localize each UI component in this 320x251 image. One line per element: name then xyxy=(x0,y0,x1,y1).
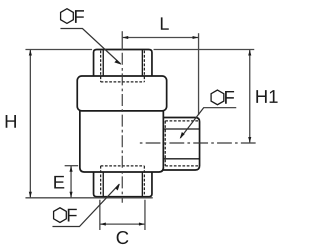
dimension H extension top xyxy=(25,49,92,51)
dimension C extension lines xyxy=(100,200,145,230)
dimension L line xyxy=(122,37,198,39)
side port outline xyxy=(163,118,199,171)
label C xyxy=(117,231,129,244)
label F bottom: letter xyxy=(68,209,77,222)
leader F top xyxy=(60,29,120,65)
top hex nut xyxy=(94,50,152,77)
dimension C line xyxy=(100,223,145,225)
top hex facet lines xyxy=(103,50,142,77)
bottom hidden thread xyxy=(101,166,145,196)
dimension L extension right xyxy=(198,33,200,115)
dimension H1 line xyxy=(249,50,251,144)
label F bottom: hexagon xyxy=(54,208,67,223)
side port hidden thread xyxy=(165,121,199,166)
label L xyxy=(161,17,169,29)
upper body xyxy=(77,76,166,111)
leader F bottom xyxy=(52,184,119,226)
dimension H extension bottom xyxy=(25,197,152,199)
horizontal centerline xyxy=(139,142,255,144)
label F top: hexagon xyxy=(61,9,74,24)
dimension H1 extension top xyxy=(154,49,255,51)
dimension E tick xyxy=(65,165,79,167)
dimension E line xyxy=(70,166,72,198)
side port facet lines xyxy=(163,129,199,159)
label F top: letter xyxy=(75,10,84,23)
vertical centerline xyxy=(121,53,123,203)
label F right: hexagon xyxy=(211,90,224,105)
bottom hex nut xyxy=(94,172,152,197)
leader F right xyxy=(180,108,236,138)
label E xyxy=(54,176,64,189)
bottom hex facet lines xyxy=(103,172,142,197)
dimension L extension left (solid above centerline) xyxy=(121,31,123,50)
dimension H line xyxy=(29,50,31,198)
lower body xyxy=(80,111,163,172)
label H1 xyxy=(256,90,277,103)
top hidden thread xyxy=(101,51,145,82)
label F right: letter xyxy=(225,91,234,104)
label H xyxy=(6,115,16,128)
